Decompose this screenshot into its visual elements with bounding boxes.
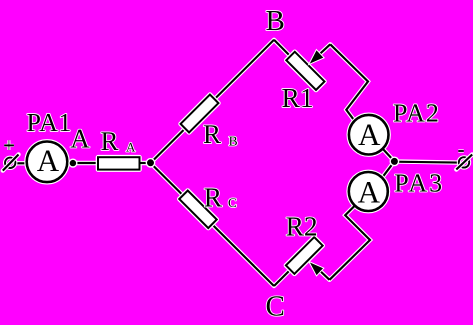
svg-text:C: C [266, 291, 285, 323]
svg-text:PA1: PA1 [27, 108, 72, 137]
wire right node to PA3 [382, 161, 394, 177]
svg-text:PA2: PA2 [393, 99, 440, 128]
label RA [101, 126, 137, 156]
wire PA1 to resistor RA [67, 162, 98, 164]
resistor R1 [286, 52, 324, 90]
svg-text:R: R [101, 126, 119, 156]
resistor RB [181, 95, 219, 133]
terminal - (right) [456, 155, 472, 170]
wire right node to terminal [394, 161, 458, 164]
plus label [4, 140, 14, 150]
svg-text:B: B [266, 5, 285, 37]
svg-text:B: B [229, 133, 238, 148]
wire PA2 to right node [383, 149, 395, 162]
svg-text:R2: R2 [286, 211, 318, 242]
svg-text:A: A [126, 139, 136, 154]
rheostat arrow R1 [310, 44, 331, 63]
svg-text:R: R [203, 119, 221, 149]
wire halo layer [16, 40, 459, 286]
wire junction to C [151, 163, 275, 286]
wire: left terminal to PA1 [16, 162, 27, 164]
label RB [203, 119, 238, 149]
svg-text:R1: R1 [282, 82, 314, 113]
svg-text:A: A [37, 143, 60, 178]
svg-text:A: A [358, 117, 381, 152]
minus label [458, 149, 464, 152]
svg-text:PA3: PA3 [394, 168, 444, 197]
wire zigzag PA3 down to R2 arrow [330, 206, 371, 280]
wire RA to junction [140, 162, 151, 164]
wire B to R1 [274, 40, 296, 62]
junction node dot [146, 158, 156, 168]
right node dot [390, 157, 400, 167]
ammeter PA2 [349, 115, 389, 155]
wire junction to B [151, 40, 275, 163]
ammeter PA3 [349, 172, 388, 211]
resistor RC [179, 191, 216, 228]
svg-text:A: A [70, 124, 90, 154]
node dot after PA1 [68, 159, 77, 168]
ammeter PA1 [27, 142, 68, 183]
terminal + (left) [3, 155, 19, 171]
wire zigzag R1 to PA2 [330, 44, 368, 119]
svg-text:C: C [228, 195, 237, 210]
label RC [204, 181, 237, 212]
wire C to R2 [274, 270, 290, 286]
svg-text:A: A [358, 174, 381, 209]
resistor R2 [286, 237, 323, 274]
svg-text:R: R [204, 181, 223, 212]
rheostat arrow R2 [310, 263, 330, 280]
resistor RA [98, 157, 140, 169]
